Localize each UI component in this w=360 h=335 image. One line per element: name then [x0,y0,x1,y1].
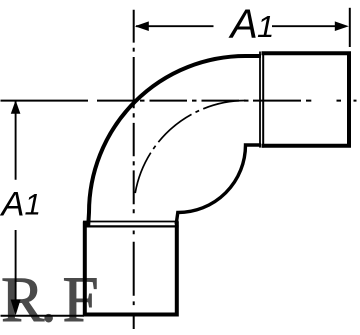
top dimension right arrowhead [335,21,349,31]
bottom socket face line 1 [83,221,179,223]
horizontal centerline [1,100,357,102]
top dimension left arrowhead [135,21,149,31]
bend outer arc [88,56,261,226]
bottom socket [85,222,177,315]
left dimension line lower segment [15,230,17,301]
top socket face line 2 [262,52,264,148]
bend inner arc [176,145,261,224]
top socket face line 1 [259,52,261,148]
left dimension upper arrowhead [11,100,21,114]
svg-text:1: 1 [25,188,41,221]
svg-text:1: 1 [257,9,274,44]
left dimension bottom extension line [1,315,85,317]
top socket [262,53,350,146]
bend centerline arc [135,101,245,194]
left dimension line upper segment [15,101,17,180]
vertical centerline [133,10,135,329]
svg-text:A: A [228,1,258,47]
svg-text:A: A [0,186,25,224]
top dimension line right segment [272,25,336,27]
top dimension right extension line [349,8,351,47]
top dimension line left segment [136,25,214,27]
left dimension lower arrowhead [11,300,21,316]
bottom socket face line 2 [83,225,179,227]
